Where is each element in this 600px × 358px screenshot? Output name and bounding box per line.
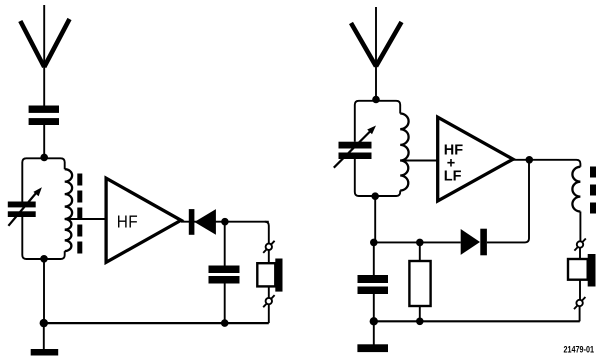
- variable capacitor C4 plates (right tank): [339, 142, 372, 149]
- variable capacitor C2 arrow: [8, 193, 36, 226]
- op-amp U1 HF amplifier (left): [106, 178, 181, 262]
- ground symbol (right): [357, 344, 388, 352]
- wire: tank bottom down through junction to C5 (right): [374, 196, 375, 321]
- wire: resistor leads: [419, 242, 421, 321]
- wire: coil tap to amplifier input (left): [65, 218, 106, 220]
- wire: [579, 280, 581, 300]
- antenna V arms (left): [20, 19, 69, 67]
- wire to ground (left): [43, 323, 45, 349]
- earphone LS1 bar: [275, 259, 282, 292]
- antenna mast wire (left): [43, 5, 45, 157]
- wire: [579, 248, 581, 259]
- node: resistor bottom: [416, 318, 424, 326]
- node: detector output (left): [221, 218, 229, 226]
- tank circuit loop wire (left): [22, 158, 64, 259]
- ground rail (left): [44, 322, 269, 324]
- antenna V arms (right): [351, 22, 402, 66]
- ground rail (right): [374, 320, 580, 322]
- wire: amp output to detector node (left): [181, 221, 269, 223]
- wire: [579, 306, 581, 321]
- node: tank bottom (right): [371, 192, 379, 200]
- core dashed line (left coil): [77, 174, 82, 254]
- variable capacitor C4 arrow: [334, 132, 370, 168]
- wire: coil tap to amplifier input (right): [400, 160, 438, 162]
- variable capacitor C2 plates (left tank): [8, 202, 36, 208]
- core dashed line (right coil): [590, 167, 596, 214]
- node: antenna / tank top (right): [372, 96, 380, 104]
- capacitor C1 (antenna series cap, left): [29, 106, 59, 113]
- node: detector junction (right): [370, 239, 378, 247]
- wire: [268, 250, 270, 263]
- earphone LS2 bar: [588, 254, 596, 287]
- wire: node down to C3 (left): [224, 222, 226, 323]
- tank circuit loop wire (right): [355, 101, 400, 196]
- node: amp output (right): [526, 156, 534, 164]
- node: rail-ground junction (left): [40, 319, 48, 327]
- wire to ground (right): [373, 321, 375, 344]
- wire: [268, 304, 270, 323]
- capacitor C5 (right, to ground rail): [358, 275, 389, 283]
- node: tank bottom (left): [40, 255, 48, 263]
- resistor R1 (right): [409, 261, 430, 306]
- diode D1 triangle: [194, 209, 216, 235]
- diode D2 triangle (right, pointing right): [461, 229, 480, 255]
- wire: amp output to transformer (right): [513, 160, 580, 242]
- connector terminal top (left earphone): [263, 241, 274, 253]
- ground symbol (left): [31, 349, 59, 356]
- svg-text:LF: LF: [444, 168, 462, 184]
- inductor L3 (output coil, right): [572, 167, 580, 212]
- svg-text:HF: HF: [117, 213, 138, 232]
- antenna mast wire (right): [375, 7, 377, 100]
- op-amp U2 HF+LF amplifier (right): [438, 117, 513, 201]
- connector terminal bottom (right earphone): [574, 297, 585, 309]
- node: resistor top: [416, 239, 424, 247]
- diode D1 cathode bar (left, pointing left): [189, 209, 195, 235]
- earphone LS2 body (right): [568, 259, 588, 280]
- node: rail-capacitor junction (left): [221, 319, 229, 327]
- diode D2 cathode bar: [480, 229, 487, 256]
- connector terminal bottom (left earphone): [263, 295, 274, 307]
- svg-text:21479-01: 21479-01: [564, 345, 595, 356]
- earphone LS1 body (left): [257, 263, 275, 286]
- wire: detector line (right): [374, 160, 529, 243]
- wire: [268, 286, 270, 298]
- inductor L2 (right tank coil): [400, 114, 408, 191]
- wire: corner down to earphone branch (left): [265, 222, 269, 244]
- connector terminal top (right earphone): [574, 239, 585, 251]
- wire: tank bottom to ground rail (left): [43, 259, 45, 323]
- capacitor C3 (left, to ground rail): [209, 266, 240, 274]
- node: rail-ground junction (right): [370, 317, 378, 325]
- inductor L1 (left tank coil): [65, 169, 72, 251]
- node: antenna / tank top (left): [40, 154, 48, 162]
